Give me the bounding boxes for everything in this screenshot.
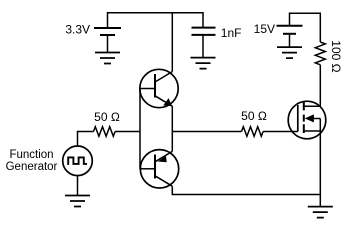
svg-text:3.3V: 3.3V [65, 23, 90, 37]
svg-text:15V: 15V [254, 22, 275, 36]
svg-text:100 Ω: 100 Ω [329, 40, 343, 72]
svg-text:50 Ω: 50 Ω [241, 109, 267, 123]
svg-text:Function: Function [9, 149, 53, 161]
svg-text:Generator: Generator [6, 161, 58, 173]
svg-text:50 Ω: 50 Ω [94, 110, 120, 124]
svg-text:1nF: 1nF [221, 26, 242, 40]
